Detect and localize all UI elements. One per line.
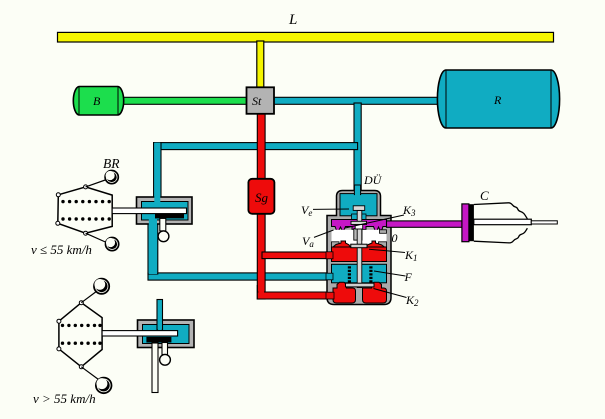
wire: cyan main pipe St to R bbox=[273, 97, 443, 104]
DU cyan F inlet port bbox=[326, 273, 333, 280]
wire: cyan drop to DU valve bbox=[354, 103, 361, 195]
valve 1 stem and roller bbox=[160, 218, 166, 231]
brake cylinder C: housing bottom wall bbox=[474, 228, 528, 243]
brake cylinder C: magenta piston plate bbox=[462, 204, 469, 242]
wheel symbol top 2 bbox=[94, 279, 109, 294]
wire: red pipe Sg down bbox=[257, 212, 265, 299]
svg-text:St: St bbox=[252, 94, 262, 108]
wire L: yellow main air line bbox=[58, 32, 554, 42]
DU piston head in cap bbox=[353, 206, 365, 211]
svg-text:BR: BR bbox=[103, 156, 120, 171]
hexagon 2 rivet dots row 1 bbox=[61, 324, 102, 327]
DU chamber O (white) bbox=[332, 230, 387, 245]
brake force regulator valve 1: gray frame bbox=[137, 197, 193, 224]
svg-text:DÜ: DÜ bbox=[363, 172, 383, 187]
hexagon 1 link to bottom wheel bbox=[86, 233, 107, 242]
hexagon 2 pivot circles bbox=[57, 301, 83, 369]
svg-text:R: R bbox=[493, 93, 502, 107]
DU red K1 inlet port bbox=[326, 252, 333, 259]
DU chamber F cyan bbox=[332, 264, 387, 283]
DU gray plate below F bbox=[346, 283, 375, 287]
wire: red elbow branch to K2 port bbox=[257, 285, 330, 299]
valve 2 stem and roller bbox=[162, 343, 168, 355]
hexagon 1 pivot circles bbox=[56, 185, 88, 235]
load sensor hexagon 1 (v<=55) bbox=[58, 187, 112, 233]
valve 1 cyan inlet through top wall bbox=[154, 143, 160, 205]
compressor B (green cylinder) bbox=[73, 87, 123, 116]
trailer control valve DU: body bbox=[327, 191, 391, 305]
rod from hexagon 2 to valve 2 bbox=[102, 331, 178, 336]
wheel symbol top (BR) bbox=[105, 171, 118, 184]
svg-text:L: L bbox=[288, 12, 297, 28]
hexagon 2 link to bottom wheel bbox=[81, 367, 98, 380]
wire: cyan branch left at y146 bbox=[154, 143, 358, 150]
DU K1 right mound bbox=[365, 241, 385, 247]
valve 2 black piston block bbox=[146, 337, 171, 343]
brake force regulator valve 2: gray frame bbox=[138, 320, 195, 348]
air reservoir R (cyan cylinder) bbox=[437, 70, 559, 128]
wire: green pipe B to St bbox=[118, 97, 248, 104]
hexagon 2 rivet dots row 2 bbox=[61, 342, 102, 345]
DU chamber K1 red base bbox=[332, 247, 387, 262]
wire: magenta pipe K3 from DU to cylinder C bbox=[387, 221, 463, 227]
distributor box St bbox=[247, 87, 275, 114]
DU red K2 inlet port bbox=[326, 292, 334, 299]
valve 2 cyan stub inlet bbox=[157, 300, 163, 330]
DU relay piston column in O chamber bbox=[354, 229, 362, 241]
svg-text:Sg: Sg bbox=[255, 190, 269, 205]
DU K1 left mound bbox=[333, 241, 351, 247]
hexagon 1 link to top wheel bbox=[86, 179, 108, 187]
hexagon 1 rivet dots row 2 bbox=[61, 217, 111, 220]
wire: yellow drop from L to St bbox=[257, 41, 264, 89]
brake cylinder C: push rod bbox=[474, 219, 532, 225]
wire: red branch to K1 port bbox=[262, 252, 330, 259]
wheel symbol bottom bbox=[106, 238, 119, 251]
svg-text:v ≤ 55 km/h: v ≤ 55 km/h bbox=[31, 242, 92, 257]
wire: cyan down to regulator valve 1 bbox=[154, 143, 161, 205]
valve 2 cyan interior bbox=[143, 325, 190, 344]
wheel symbol bottom 2 bbox=[96, 378, 112, 394]
DU spring dashes in F right bbox=[369, 266, 372, 282]
DU center stem bbox=[357, 211, 362, 288]
DU spring dashes in F left bbox=[348, 266, 351, 282]
valve 1 cyan interior bbox=[142, 202, 189, 221]
valve 1 cyan outlet below bbox=[149, 219, 157, 274]
hexagon 2 link to top wheel bbox=[81, 291, 97, 303]
svg-text:v > 55 km/h: v > 55 km/h bbox=[33, 391, 96, 406]
DU piston disc in magenta chamber bbox=[351, 221, 367, 224]
svg-text:0: 0 bbox=[392, 231, 398, 245]
wire: cyan bottom horizontal to DU F-port bbox=[148, 273, 330, 280]
safety valve Sg bbox=[248, 179, 274, 214]
valve 1 black piston block bbox=[155, 214, 184, 219]
valve 2 white drain pipe down bbox=[152, 343, 158, 393]
DU K2 chamber red left blob bbox=[333, 282, 356, 303]
DU magenta chamber K3 bbox=[332, 220, 387, 234]
load sensor hexagon 2 (v>55) bbox=[59, 303, 102, 367]
svg-text:F: F bbox=[404, 270, 413, 284]
brake cylinder C: housing top wall bbox=[474, 203, 528, 219]
svg-text:B: B bbox=[93, 94, 101, 108]
DU cyan inlet pipe into cap bbox=[354, 185, 360, 195]
wire: cyan below valve 1 bbox=[148, 221, 158, 274]
rod from hexagon 1 to valve 1 bbox=[112, 208, 186, 214]
DU K2 chamber red right blob bbox=[363, 282, 387, 303]
svg-text:C: C bbox=[480, 188, 489, 203]
DU gray plate above K1 bbox=[351, 244, 367, 248]
wire: red pipe St to Sg bbox=[257, 112, 265, 180]
DU cap cyan chamber Ve bbox=[340, 194, 377, 216]
hexagon 1 rivet dots row 1 bbox=[61, 200, 111, 203]
brake cylinder C: black piston plate bbox=[469, 204, 474, 241]
